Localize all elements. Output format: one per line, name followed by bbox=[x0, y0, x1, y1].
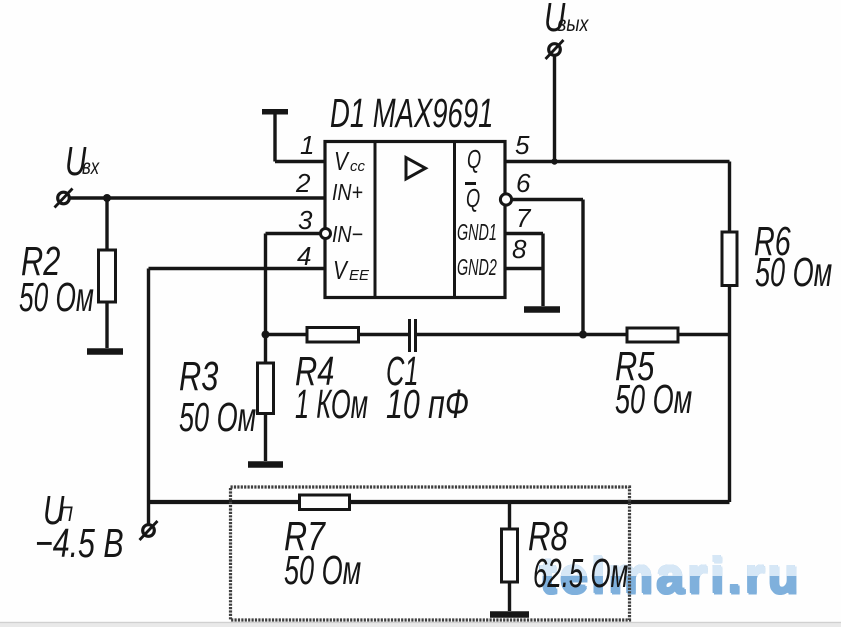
watermark telmari.ru bbox=[540, 551, 820, 603]
pin label GND1 bbox=[457, 221, 497, 245]
resistor R6 bbox=[722, 232, 737, 286]
pin number 7 bbox=[516, 205, 530, 231]
pin 3 inversion bubble bbox=[321, 229, 331, 239]
value R8 bbox=[533, 553, 628, 594]
wire pin3 IN- bbox=[266, 234, 321, 335]
wire pin8 GND2 bbox=[505, 234, 543, 307]
resistor R7 bbox=[300, 495, 350, 510]
ground G3 (pins 7,8) bbox=[524, 306, 560, 313]
connector Uvx bbox=[55, 189, 73, 208]
node input/R2 junction bbox=[103, 194, 111, 202]
label R4 bbox=[295, 351, 334, 392]
pin label VEE subscript bbox=[349, 268, 369, 283]
ground G2 (R2) bbox=[87, 348, 123, 355]
wire Up stub bbox=[147, 502, 150, 524]
resistor R2 bbox=[99, 250, 116, 302]
pin number 1 bbox=[300, 132, 314, 158]
dashed attenuator box bbox=[231, 487, 630, 620]
value C1 bbox=[386, 384, 469, 425]
resistor R8 bbox=[502, 529, 518, 582]
pin number 4 bbox=[297, 243, 311, 269]
pin number 5 bbox=[515, 132, 529, 158]
op-amp U1 body (D1 MAX9691) bbox=[325, 142, 505, 298]
label Uvyx subscript bbox=[557, 14, 588, 35]
wire R8 top bbox=[508, 502, 511, 529]
connector Up bbox=[140, 521, 158, 540]
value R3 bbox=[179, 397, 256, 438]
resistor R4 bbox=[307, 328, 359, 343]
pin label Vcc bbox=[334, 148, 348, 174]
label Uvx subscript bbox=[82, 157, 99, 178]
node R3/R4 junction bbox=[262, 331, 270, 339]
pin label GND2 bbox=[457, 256, 497, 280]
wire R2 top bbox=[105, 198, 108, 250]
capacitor C1 bbox=[410, 319, 416, 352]
pin number 3 bbox=[298, 207, 312, 233]
label Up subscript bbox=[59, 504, 73, 525]
label R5 bbox=[615, 346, 654, 387]
pin label IN+ bbox=[332, 181, 363, 204]
wire R3 top bbox=[264, 335, 267, 364]
wire C1 to R5 bbox=[417, 333, 627, 336]
connector Uvyx bbox=[546, 40, 564, 59]
wire R6 top bbox=[728, 162, 731, 233]
wire R3 bottom bbox=[264, 414, 267, 462]
resistor R3 bbox=[258, 363, 274, 414]
ground G1 (top, pin 1 supply) bbox=[262, 112, 288, 162]
wire R8 bottom bbox=[508, 582, 511, 611]
pin label Qbar overbar bbox=[465, 182, 476, 185]
label R2 bbox=[21, 241, 60, 282]
wire Uvyx drop bbox=[553, 57, 556, 162]
wire pin5 Q output bbox=[505, 160, 730, 163]
pin number 2 bbox=[296, 170, 310, 196]
ground G5 (R8) bbox=[490, 611, 529, 618]
pin number 8 bbox=[512, 236, 526, 262]
label Uvyx bbox=[544, 0, 565, 38]
page bottom edge line bbox=[0, 622, 841, 627]
label R6 bbox=[754, 221, 791, 262]
resistor R5 bbox=[627, 328, 678, 342]
node Uvyx/pin5 junction bbox=[551, 158, 557, 164]
pin label VEE bbox=[333, 257, 347, 283]
wire feedback row left bbox=[266, 333, 308, 336]
wire bottom rail bbox=[149, 500, 730, 504]
wire pin2 input bbox=[71, 196, 326, 199]
pin label IN- bbox=[332, 223, 363, 246]
node pin6/R5 junction bbox=[579, 331, 587, 339]
label R7 bbox=[284, 516, 325, 557]
wire pin6 Qbar bbox=[512, 200, 584, 335]
pin label Vcc subscript bbox=[350, 159, 365, 174]
label Up bbox=[43, 490, 64, 531]
pin label Qbar bbox=[466, 185, 480, 211]
value R4 bbox=[295, 384, 368, 425]
value R7 bbox=[284, 550, 361, 591]
label D1 MAX9691 bbox=[330, 93, 493, 134]
pin 6 inversion bubble bbox=[500, 194, 511, 205]
comparator triangle symbol bbox=[406, 158, 426, 180]
ground G4 (R3) bbox=[248, 461, 283, 468]
wire pin7 GND1 bbox=[505, 232, 543, 235]
value R6 bbox=[755, 252, 832, 293]
wire pin1 to Vcc bbox=[275, 160, 325, 163]
wire R4 to C1 bbox=[359, 333, 409, 336]
value Up bbox=[35, 523, 124, 564]
value R2 bbox=[19, 277, 94, 318]
label R8 bbox=[528, 516, 568, 557]
label C1 bbox=[386, 351, 419, 392]
pin label Q bbox=[467, 146, 481, 172]
label R3 bbox=[179, 356, 218, 397]
wire R6 bottom to lower rail bbox=[728, 286, 731, 503]
wire R5 to right rail bbox=[678, 333, 730, 336]
value R5 bbox=[615, 379, 692, 420]
wire pin4 VEE bbox=[149, 269, 326, 503]
pin number 6 bbox=[516, 170, 530, 196]
wire R2 bottom bbox=[105, 302, 108, 348]
label Uvx bbox=[65, 141, 86, 182]
